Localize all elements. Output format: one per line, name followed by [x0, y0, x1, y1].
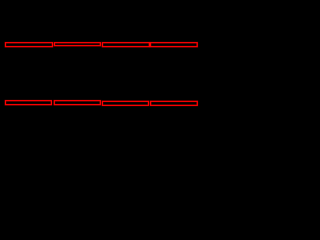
resistor R1 [5, 43, 52, 47]
resistor R3 [102, 43, 149, 47]
resistor R4 [151, 43, 198, 47]
resistor R2 [54, 43, 100, 46]
resistor R5 [5, 101, 51, 105]
resistor R8 [151, 101, 198, 105]
resistor R6 [54, 101, 100, 105]
resistor R7 [102, 101, 148, 105]
